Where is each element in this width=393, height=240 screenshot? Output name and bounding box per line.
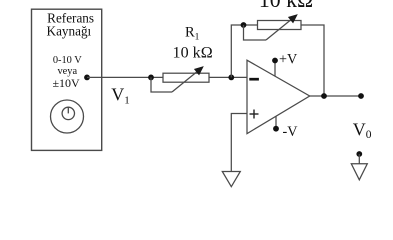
-V supply pin — [273, 116, 298, 140]
wire source to R1 — [87, 76, 163, 78]
reference source box — [32, 9, 102, 150]
output ground terminal node — [356, 151, 362, 157]
node output terminal — [358, 93, 364, 99]
svg-text:+V: +V — [279, 51, 298, 67]
svg-text:Kaynağı: Kaynağı — [47, 23, 92, 38]
ground (non-inverting input) — [222, 172, 240, 187]
node feedback resistor left junction — [241, 22, 247, 28]
op-amp non-inverting input plus sign — [250, 110, 259, 119]
wire output ground stub — [358, 154, 360, 164]
wire feedback right (over and down to output) — [301, 25, 324, 96]
svg-text:-V: -V — [283, 124, 299, 140]
node R1 left junction — [148, 75, 154, 81]
ground (output reference) — [351, 164, 367, 180]
wire feedback left (up and over) — [231, 25, 257, 77]
op-amp U1 triangle — [247, 60, 310, 133]
+V supply pin — [272, 51, 298, 76]
wire non-inverting input to ground — [231, 114, 247, 172]
node output feedback junction — [321, 93, 327, 99]
svg-text:10 kΩ: 10 kΩ — [173, 45, 213, 62]
wire op-amp output — [310, 95, 362, 97]
source output terminal node — [84, 75, 90, 81]
svg-text:10 kΩ: 10 kΩ — [259, 0, 313, 12]
node feedback junction at inverting input — [228, 75, 234, 81]
resistor R2 feedback (variable, rheostat) — [244, 19, 302, 40]
wire R1 to op-amp inverting input — [209, 76, 247, 78]
resistor R1 (variable, rheostat) — [151, 71, 209, 92]
svg-text:±10V: ±10V — [52, 76, 80, 90]
op-amp inverting input minus sign — [249, 78, 259, 81]
svg-text:0-10 V: 0-10 V — [53, 55, 82, 66]
label Referans Kaynagi — [47, 10, 94, 38]
R1 wiper arrowhead — [195, 67, 203, 75]
knob of reference source — [51, 100, 84, 133]
label 0-10 V veya ±10V — [52, 55, 82, 90]
R2 wiper arrowhead — [289, 15, 297, 23]
